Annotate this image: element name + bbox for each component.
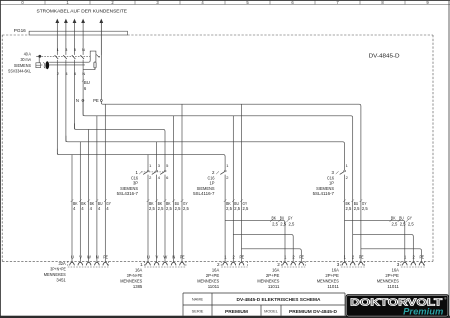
svg-text:3: 3 <box>397 262 400 267</box>
svg-text:11011: 11011 <box>387 284 399 289</box>
svg-text:SIEMENS: SIEMENS <box>316 186 334 191</box>
svg-text:40 A: 40 A <box>24 52 31 57</box>
svg-text:2,5: 2,5 <box>354 206 360 211</box>
svg-text:2P+PE: 2P+PE <box>206 273 220 278</box>
svg-text:2P+PE: 2P+PE <box>385 273 399 278</box>
svg-text:2,5: 2,5 <box>226 206 232 211</box>
svg-text:SIEMENS: SIEMENS <box>197 186 215 191</box>
svg-text:PE: PE <box>359 255 364 260</box>
svg-text:N: N <box>96 255 99 260</box>
svg-text:2,5: 2,5 <box>392 221 398 226</box>
svg-text:2,5: 2,5 <box>408 221 414 226</box>
svg-text:1P: 1P <box>210 181 215 186</box>
svg-text:C16: C16 <box>208 175 215 180</box>
svg-text:11011: 11011 <box>327 284 339 289</box>
svg-text:MENNEKES: MENNEKES <box>44 272 66 277</box>
svg-text:5SL4316-7: 5SL4316-7 <box>117 191 139 196</box>
svg-text:1: 1 <box>140 262 143 267</box>
svg-text:16A: 16A <box>332 267 340 272</box>
svg-text:N: N <box>172 255 175 260</box>
svg-text:DV-4845-D: DV-4845-D <box>369 54 400 60</box>
svg-text:MENNEKES: MENNEKES <box>120 278 142 283</box>
svg-text:N: N <box>76 98 79 103</box>
svg-text:PE: PE <box>103 255 108 260</box>
svg-text:MENNEKES: MENNEKES <box>257 278 279 283</box>
svg-text:2,5: 2,5 <box>272 221 278 226</box>
svg-text:2P+PE: 2P+PE <box>266 273 280 278</box>
svg-text:16A: 16A <box>135 267 143 272</box>
svg-text:1P: 1P <box>329 181 334 186</box>
svg-text:PE: PE <box>93 98 99 103</box>
svg-text:2,5: 2,5 <box>166 206 172 211</box>
svg-text:C16: C16 <box>327 175 334 180</box>
svg-text:2,5: 2,5 <box>234 206 240 211</box>
svg-text:PE: PE <box>240 255 245 260</box>
svg-text:16A: 16A <box>272 267 280 272</box>
svg-text:3P+N+PE: 3P+N+PE <box>50 267 66 272</box>
svg-text:PE: PE <box>299 255 304 260</box>
svg-text:SERIE: SERIE <box>192 309 204 314</box>
svg-text:MENNEKES: MENNEKES <box>317 278 339 283</box>
svg-text:2,5: 2,5 <box>149 206 155 211</box>
svg-text:STROMKABEL AUF DER KUNDENSEITE: STROMKABEL AUF DER KUNDENSEITE <box>37 8 128 14</box>
svg-text:2P+PE: 2P+PE <box>325 273 339 278</box>
svg-text:PREMIUM DV-4845-D: PREMIUM DV-4845-D <box>289 309 338 314</box>
svg-text:11011: 11011 <box>268 284 280 289</box>
svg-text:U: U <box>147 255 150 260</box>
svg-text:5SV3344-6KL: 5SV3344-6KL <box>8 68 31 73</box>
svg-text:MENNEKES: MENNEKES <box>377 278 399 283</box>
svg-text:5SL4116-7: 5SL4116-7 <box>193 191 215 196</box>
svg-text:SIEMENS: SIEMENS <box>14 63 31 68</box>
svg-text:PREMIUM: PREMIUM <box>225 309 248 314</box>
svg-text:2,5: 2,5 <box>243 206 249 211</box>
svg-text:NAME: NAME <box>192 297 204 302</box>
svg-text:16A: 16A <box>212 267 220 272</box>
svg-text:30 mA: 30 mA <box>21 57 32 62</box>
svg-text:BU: BU <box>84 80 90 85</box>
svg-text:2,5: 2,5 <box>346 206 352 211</box>
svg-text:MENNEKES: MENNEKES <box>197 278 219 283</box>
svg-text:2,5: 2,5 <box>175 206 181 211</box>
svg-text:3451: 3451 <box>56 278 66 283</box>
svg-text:V: V <box>79 255 82 260</box>
svg-text:PG16: PG16 <box>14 28 26 33</box>
svg-text:2,5: 2,5 <box>289 221 295 226</box>
svg-text:W: W <box>163 255 167 260</box>
svg-text:W: W <box>87 255 91 260</box>
svg-text:Premium: Premium <box>403 306 443 317</box>
svg-text:V: V <box>156 255 159 260</box>
svg-text:1385: 1385 <box>133 284 143 289</box>
svg-text:N: N <box>82 71 85 76</box>
svg-text:2: 2 <box>277 262 280 267</box>
svg-text:2: 2 <box>217 262 220 267</box>
svg-text:3: 3 <box>337 262 340 267</box>
svg-text:C16: C16 <box>131 175 138 180</box>
svg-text:DV-4845-D ELEKTRISCHES SCHEMA: DV-4845-D ELEKTRISCHES SCHEMA <box>237 297 322 302</box>
svg-text:N: N <box>82 47 85 52</box>
svg-text:16A: 16A <box>392 267 400 272</box>
svg-text:2,5: 2,5 <box>158 206 164 211</box>
svg-text:MODEL: MODEL <box>264 309 279 314</box>
svg-text:3P+N+PE: 3P+N+PE <box>127 273 143 278</box>
svg-text:2,5: 2,5 <box>400 221 406 226</box>
svg-text:32A: 32A <box>59 261 67 266</box>
svg-text:SIEMENS: SIEMENS <box>120 186 138 191</box>
svg-text:2,5: 2,5 <box>280 221 286 226</box>
svg-text:5SL4116-7: 5SL4116-7 <box>313 191 335 196</box>
svg-text:3P: 3P <box>133 181 138 186</box>
svg-text:PE: PE <box>420 255 425 260</box>
svg-text:2,5: 2,5 <box>362 206 368 211</box>
svg-text:PE: PE <box>180 255 185 260</box>
svg-text:11011: 11011 <box>208 284 220 289</box>
svg-text:U: U <box>71 255 74 260</box>
svg-text:2,5: 2,5 <box>183 206 189 211</box>
